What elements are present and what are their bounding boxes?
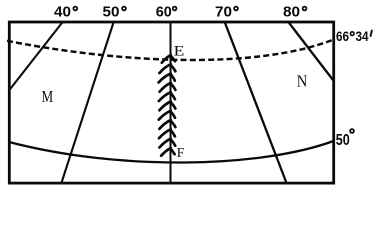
parallel 50N [9, 141, 334, 163]
svg-text:E: E [174, 43, 185, 59]
svg-text:34: 34 [356, 28, 369, 44]
svg-text:60: 60 [156, 5, 172, 21]
meridian 70E [225, 22, 287, 184]
meridian 50E [61, 22, 113, 184]
label 66d34m right [336, 28, 372, 44]
label 50 deg right [336, 129, 354, 149]
map frame [9, 22, 333, 183]
label 70 deg [215, 5, 238, 21]
svg-text:M: M [42, 87, 54, 106]
meridian 60E [170, 22, 172, 184]
arctic circle 66d34 dashed parallel [7, 40, 334, 60]
svg-text:50: 50 [103, 5, 120, 21]
meridian 40E [9, 22, 63, 91]
svg-text:F: F [177, 145, 185, 160]
svg-text:66: 66 [336, 28, 349, 44]
label 50 deg top [103, 5, 126, 21]
label 40 deg [54, 5, 77, 21]
svg-text:50: 50 [336, 132, 350, 149]
svg-text:N: N [297, 71, 308, 90]
svg-text:80: 80 [283, 5, 300, 21]
svg-text:40: 40 [54, 5, 71, 21]
label 60 deg [156, 5, 177, 21]
svg-text:70: 70 [215, 5, 232, 21]
meridian 80E [288, 22, 333, 81]
mountain range chain E-F [159, 55, 176, 156]
label 80 deg [283, 5, 306, 21]
